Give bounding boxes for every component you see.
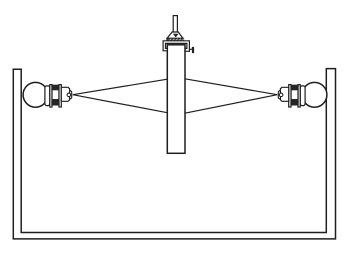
right nozzle head bbox=[280, 87, 288, 101]
right spray cone line lower bbox=[185, 95, 277, 114]
left nozzle ring B bbox=[59, 85, 61, 107]
clamp screw stem bbox=[189, 48, 192, 50]
test panel (hanging plate) bbox=[167, 45, 185, 154]
right ball joint bbox=[302, 82, 327, 107]
left nozzle head bbox=[61, 87, 69, 101]
left nozzle tip protrusion bbox=[70, 91, 72, 99]
left ball joint bbox=[23, 82, 48, 107]
left spray cone line lower bbox=[73, 95, 168, 113]
left nozzle ring A bbox=[50, 85, 52, 107]
right nozzle spool bottom cap bbox=[291, 99, 298, 105]
right nozzle orifice circle bbox=[279, 93, 283, 97]
support rod bbox=[173, 16, 177, 33]
right nozzle ring B bbox=[289, 85, 291, 107]
left nozzle spool bottom cap bbox=[52, 99, 59, 105]
clamp bracket bbox=[163, 41, 189, 52]
left nozzle spool top cap bbox=[52, 85, 59, 90]
left spray cone line upper bbox=[73, 79, 168, 95]
right spray cone line upper bbox=[185, 79, 277, 95]
right nozzle neck bbox=[300, 86, 305, 106]
tank (open-top container, double-wall outline) bbox=[13, 69, 335, 239]
funnel taper bbox=[167, 32, 183, 38]
right nozzle spool top cap bbox=[291, 85, 298, 90]
left nozzle orifice circle bbox=[67, 93, 71, 97]
funnel inner cup bbox=[174, 34, 178, 36]
right nozzle tip protrusion bbox=[278, 91, 280, 99]
hatched bar (clamp pad) bbox=[167, 38, 184, 41]
left nozzle neck bbox=[45, 86, 50, 106]
right nozzle ring A bbox=[298, 85, 300, 107]
left nozzle spool body bbox=[52, 85, 59, 105]
right nozzle spool body bbox=[291, 85, 298, 105]
clamp screw knob bbox=[192, 47, 194, 53]
